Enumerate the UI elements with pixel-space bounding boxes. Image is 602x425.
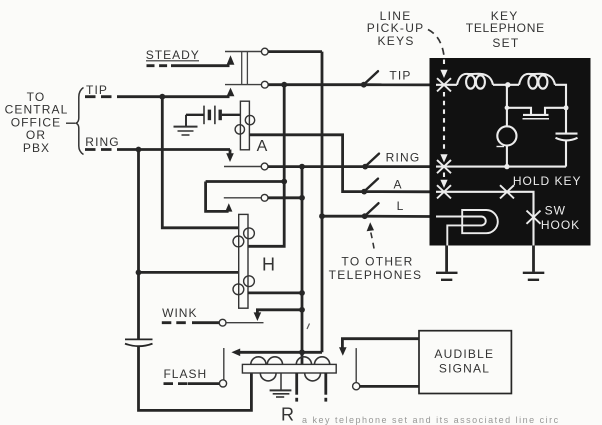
receiver element [507, 108, 531, 114]
key contact X (TIP) [437, 78, 451, 91]
ground below box (switch hook) [523, 245, 545, 280]
arrow left to FLASH spring [231, 349, 240, 357]
wire upper contact to corner [268, 50, 322, 53]
capacitor C1 on ring bus [125, 339, 153, 346]
switch hook contact X [527, 211, 541, 224]
junction nodes (white) [505, 82, 510, 87]
svg-text:PBX: PBX [23, 141, 50, 155]
dashed pick-up keys line in box [443, 60, 445, 68]
wire L2 to right branch [555, 85, 566, 133]
contact circle audible [353, 383, 360, 390]
contact circle row3 [261, 194, 268, 201]
svg-text:AUDIBLE: AUDIBLE [434, 347, 494, 361]
inductor L1 [457, 74, 493, 85]
node row3 on x302 bus [299, 195, 305, 201]
svg-text:A: A [393, 177, 401, 191]
label TO CENTRAL OFFICE OR PBX [5, 90, 69, 155]
switch blade TIP key [364, 71, 379, 85]
WINK spring (thin) [226, 322, 264, 324]
contact springs: steady pair thin lines [225, 51, 262, 53]
wire relay H lower winding output [248, 291, 302, 294]
transmitter lower lead [506, 146, 508, 167]
lamp envelope [462, 210, 498, 233]
FLASH spring (thin vertical) [223, 348, 225, 380]
node row1 / x302 bus [299, 164, 305, 170]
switch blade RING key [365, 154, 379, 167]
svg-text:TELEPHONE: TELEPHONE [466, 21, 545, 35]
wire lower contact toward TIP key [268, 83, 364, 86]
node RING junction [136, 147, 142, 153]
node on lower steady wire [281, 82, 287, 88]
wire RING lead (dashed then solid) [85, 148, 117, 151]
hold key contact X [500, 185, 514, 198]
wire row1 to RING key [268, 165, 365, 168]
svg-text:TIP: TIP [389, 69, 411, 83]
svg-text:SET: SET [492, 36, 519, 50]
dashed curve from KEYS into box [428, 30, 444, 57]
svg-text:RING: RING [85, 135, 119, 149]
node H output on x302 bus [299, 290, 305, 296]
svg-text:HOLD KEY: HOLD KEY [513, 174, 582, 188]
wire between inductors [493, 84, 519, 86]
transmitter circle [497, 126, 516, 145]
contact circle WINK [219, 319, 226, 326]
wire WINK lead (dashed then solid) [162, 321, 190, 324]
contact circle upper steady [261, 48, 268, 55]
contact circle lower steady [261, 81, 268, 88]
node RING bus to relay H lower winding [136, 270, 142, 276]
wire TIP bus x=162 down to relay H upper winding [162, 97, 238, 228]
contact circle row1 [261, 163, 268, 170]
wire L line inside box [436, 215, 462, 217]
arrow row2 hook up to row3 spring [225, 203, 232, 211]
arrow down to audible spring [339, 347, 347, 356]
coil R (induction coil) [242, 357, 336, 381]
wire to relay H lower winding [139, 271, 239, 274]
switch blade A key [364, 179, 378, 192]
coil R ground [270, 373, 292, 397]
wire row3 to x302 bus [268, 196, 302, 199]
wire RING key into box [365, 165, 431, 168]
svg-text:STEADY: STEADY [146, 48, 200, 62]
arrow RING down to contact spring row1 [229, 150, 232, 155]
arrow STEADY to upper contact spring [227, 55, 235, 65]
arrow dashed up to L key [371, 233, 375, 253]
wire vertical bus x=302 down to coil R [301, 167, 304, 365]
arrows (white) on dashed line [440, 70, 447, 78]
key contact X (RING) [437, 160, 451, 173]
wire row2 hook [206, 180, 285, 183]
svg-text:SIGNAL: SIGNAL [439, 361, 490, 375]
svg-text:SW: SW [545, 204, 566, 218]
audible spring (thin vertical) [355, 348, 357, 383]
node flash line on x302 bus [299, 349, 305, 355]
svg-text:HOOK: HOOK [541, 218, 580, 232]
brace for central office lines [76, 88, 84, 155]
capacitor C2 (in box) [556, 133, 578, 135]
wire TIP lead (dashed then solid) [85, 95, 117, 98]
relay A contact row3 spring (thin) [224, 197, 262, 199]
battery B [186, 106, 240, 125]
wire flash arrow line from x322 bus [240, 351, 322, 354]
wire audible top lead [342, 339, 419, 348]
wire FLASH lead (dashed then solid) [164, 382, 189, 385]
battery ground [174, 115, 198, 135]
contact circle FLASH [219, 380, 226, 387]
svg-text:R: R [281, 405, 294, 425]
lamp filament and return lead [447, 217, 485, 246]
arrow TIP to lower contact spring [227, 88, 235, 97]
transmitter branch vertical [506, 85, 508, 127]
svg-text:RING: RING [386, 151, 421, 165]
wire TIP key into box [364, 83, 431, 86]
svg-text:FLASH: FLASH [163, 367, 207, 381]
wire L line left segment [322, 215, 365, 218]
wire TIP inside box [436, 84, 457, 86]
wire A line inside box [436, 192, 534, 246]
node L line on x322 bus [319, 213, 325, 219]
svg-text:A: A [257, 138, 268, 155]
node TIP junction [159, 94, 165, 100]
relay H coil [233, 214, 254, 308]
svg-text:TIP: TIP [86, 83, 108, 97]
relay A contact row1 spring (thin) [224, 166, 261, 168]
svg-text:PICK-UP: PICK-UP [367, 21, 425, 35]
wire ring bus below capacitor to bottom wire [139, 347, 252, 411]
wire relay A coil output to A-key line [249, 135, 364, 192]
svg-text:WINK: WINK [162, 306, 197, 320]
node row2 end on x284 bus [281, 179, 287, 185]
wire L key into box [365, 215, 431, 218]
wire A key into box [364, 190, 431, 193]
switch blade L key [365, 203, 379, 216]
contact linkage bars [241, 52, 243, 85]
svg-text:a key telephone set and i: a key telephone set and its associated l… [302, 415, 560, 425]
svg-text:KEYS: KEYS [377, 34, 414, 48]
wire to WINK contact arrow [257, 310, 302, 314]
wire RING bus x=138.5 down to capacitor [137, 150, 140, 340]
coil R battery lead 2 [324, 373, 327, 395]
tick from label to brace [66, 122, 75, 124]
wire vertical bus x=284 down to relay H [248, 85, 284, 247]
svg-text:TELEPHONES: TELEPHONES [329, 268, 423, 282]
audible signal box [419, 331, 511, 394]
stray tick [307, 324, 310, 330]
underline under STEADY [146, 60, 199, 62]
arrow down to WINK spring [254, 312, 262, 321]
key telephone set enclosure [430, 58, 591, 246]
svg-text:H: H [262, 255, 275, 275]
wire vertical bus x=322 (steady contact down to flash line) [321, 52, 324, 353]
wire RING inside box (bottom of network) [436, 166, 566, 168]
svg-text:TO OTHER: TO OTHER [341, 254, 413, 268]
node wink wire on x302 bus [299, 307, 305, 313]
ground below box (lamp return) [436, 245, 458, 280]
inductor L2 [519, 74, 555, 85]
key contact X (A) [437, 185, 451, 198]
svg-text:L: L [397, 199, 404, 213]
wire STEADY lead (dashed then solid) [147, 64, 169, 67]
coil R battery lead 1 [295, 373, 298, 395]
wire audible bottom lead [360, 385, 419, 388]
relay A coil [235, 101, 255, 150]
